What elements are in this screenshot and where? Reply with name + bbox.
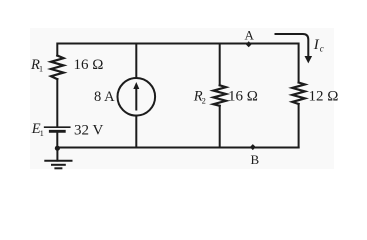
svg-text:B: B <box>251 152 260 167</box>
current source 8A <box>118 78 156 116</box>
svg-text:8 A: 8 A <box>94 89 115 105</box>
node A <box>246 41 252 47</box>
wire current-source bottom <box>135 116 137 148</box>
svg-text:A: A <box>245 28 255 43</box>
node B <box>250 144 256 150</box>
wire bottom bus <box>57 147 298 149</box>
wire right branch bottom <box>298 104 300 148</box>
wire top bus <box>57 44 298 83</box>
junction dot at ground node <box>55 146 60 151</box>
svg-text:12 Ω: 12 Ω <box>309 88 339 104</box>
current arrow Ic <box>276 34 313 63</box>
ground <box>45 148 71 168</box>
wire R2 bottom <box>219 106 221 148</box>
resistor R2 <box>213 85 226 106</box>
svg-text:16 Ω: 16 Ω <box>74 57 104 73</box>
wire R2 top <box>219 44 221 86</box>
resistor R3 12 ohm <box>292 83 305 105</box>
resistor R1 <box>51 56 64 80</box>
wire E1 to bottom bus <box>56 133 58 148</box>
battery E1 <box>45 127 70 131</box>
svg-text:16 Ω: 16 Ω <box>228 88 258 104</box>
svg-text:32 V: 32 V <box>74 123 103 139</box>
wire current-source top <box>135 44 137 79</box>
wire R1 to E1 <box>56 79 58 126</box>
